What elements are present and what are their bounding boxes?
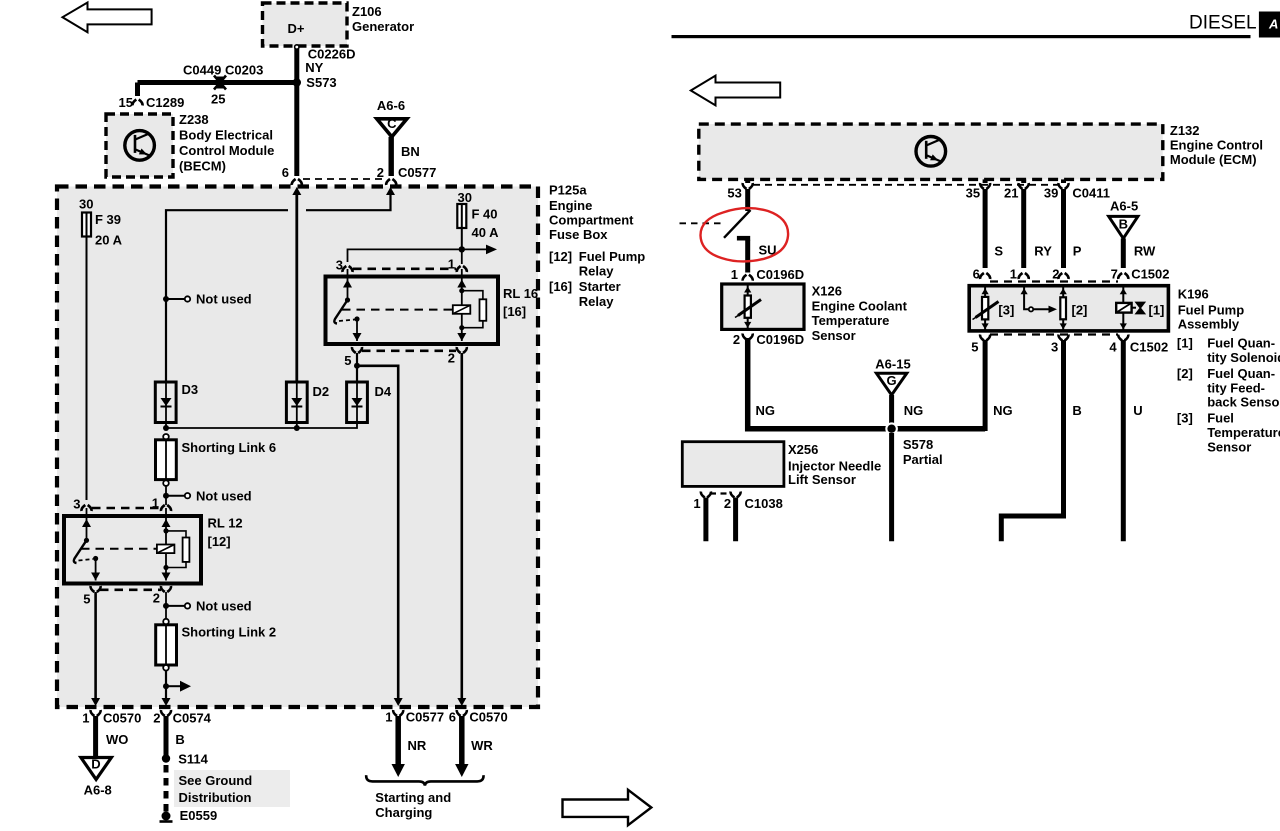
svg-text:RL 16: RL 16: [503, 286, 538, 301]
RL16 lower contact wire to pin5: [356, 319, 358, 341]
wire A6-15 down to S578: [889, 395, 894, 429]
RL12 coil: [157, 545, 175, 554]
wire S down to C1502 pin 6: [983, 189, 988, 268]
wire F39 down to RL12 pin3: [86, 237, 88, 501]
terminal not used (RL12 pin1): [163, 493, 169, 499]
wire B down to S114: [164, 716, 169, 762]
svg-text:S573: S573: [306, 75, 336, 90]
wire shorting link 2 down to C0574: [165, 670, 167, 701]
svg-text:Relay: Relay: [579, 294, 614, 309]
svg-text:G: G: [887, 373, 897, 388]
wire pin2 down and left to left column: [306, 194, 391, 210]
svg-text:D2: D2: [313, 384, 330, 399]
ECM icon: [916, 137, 946, 167]
sensor X256 box: [682, 442, 784, 487]
wire WR to starting and charging: [459, 716, 465, 765]
terminal not used (upper): [163, 296, 169, 302]
svg-text:P: P: [1073, 244, 1082, 259]
svg-text:6: 6: [282, 165, 289, 180]
svg-text:A: A: [1268, 17, 1278, 32]
svg-text:[16]: [16]: [503, 304, 526, 319]
svg-text:E0559: E0559: [180, 808, 218, 823]
svg-text:5: 5: [83, 592, 90, 607]
switch SU blade: [724, 210, 751, 238]
svg-text:NY: NY: [305, 60, 323, 75]
svg-text:2: 2: [153, 591, 160, 606]
red annotation ellipse: [700, 208, 788, 261]
wire junction left and down to RL16 pin3: [348, 249, 462, 262]
wire RL12 pin5 down to C0570: [94, 592, 97, 701]
terminal not used (RL12 pin2): [163, 603, 169, 609]
svg-text:B: B: [1072, 403, 1081, 418]
splice S573: [293, 78, 301, 86]
RL16 coil feed wire from pin1: [461, 269, 463, 305]
RL16 switch blade: [334, 300, 347, 324]
svg-text:C0196D: C0196D: [756, 332, 804, 347]
svg-text:Distribution: Distribution: [179, 790, 252, 805]
svg-text:2: 2: [724, 496, 731, 511]
svg-text:S578: S578: [903, 437, 933, 452]
dashed line left of SU: [680, 222, 721, 224]
svg-text:Fuse Box: Fuse Box: [549, 227, 608, 242]
nav arrow bottom right: [563, 790, 652, 825]
splice S114: [162, 754, 170, 762]
generator Z106 box: [263, 3, 348, 46]
svg-text:3: 3: [73, 497, 80, 512]
svg-text:C1502: C1502: [1130, 340, 1168, 355]
svg-text:C0203: C0203: [225, 63, 263, 78]
junction flag symbol: [163, 683, 169, 689]
svg-text:BN: BN: [401, 144, 420, 159]
svg-text:[3]: [3]: [1177, 411, 1193, 426]
svg-text:[2]: [2]: [1072, 303, 1088, 318]
svg-text:Charging: Charging: [375, 805, 432, 820]
see ground distribution background: [174, 770, 290, 807]
svg-text:1: 1: [1010, 267, 1017, 282]
wire NG from X126 down and right: [748, 338, 985, 429]
svg-text:Fuel: Fuel: [1207, 411, 1234, 426]
svg-text:Lift Sensor: Lift Sensor: [788, 472, 856, 487]
svg-text:NR: NR: [408, 738, 427, 753]
wire junction down to RL16 pin1: [461, 249, 463, 264]
dashed connector line C1502 top: [990, 280, 1118, 282]
svg-text:X256: X256: [788, 442, 818, 457]
wire generator down to fusebox pin 6: [294, 46, 299, 168]
svg-text:1: 1: [731, 267, 738, 282]
shorting link 2: [163, 619, 169, 625]
svg-text:P125a: P125a: [549, 183, 587, 198]
svg-text:Engine Control: Engine Control: [1170, 137, 1263, 152]
svg-text:Not used: Not used: [196, 489, 252, 504]
arrow continuing right from junction: [462, 248, 488, 250]
svg-text:Temperature: Temperature: [812, 313, 890, 328]
wire RY down to C1502 pin 1: [1021, 189, 1026, 268]
arrow into box at pin 2: [386, 187, 395, 195]
dashed connector line RL12 pins 5-2: [100, 588, 161, 591]
wire B from K196 pin3: [1001, 340, 1063, 541]
svg-text:Temperature: Temperature: [1207, 425, 1280, 440]
RL16 switch contact wire from pin3: [347, 269, 349, 300]
svg-text:Fuel Pump: Fuel Pump: [1178, 303, 1245, 318]
svg-text:C1038: C1038: [745, 496, 783, 511]
RL16 coil out wire to pin2: [461, 314, 463, 341]
svg-text:B: B: [175, 732, 184, 747]
svg-text:Sensor: Sensor: [812, 328, 856, 343]
brace starting and charging: [366, 775, 483, 785]
svg-text:C0570: C0570: [469, 710, 507, 725]
svg-text:F 40: F 40: [472, 207, 498, 222]
wire NG from K196 pin5: [983, 340, 988, 431]
svg-text:2: 2: [733, 332, 740, 347]
svg-text:C1502: C1502: [1131, 267, 1169, 282]
svg-text:[2]: [2]: [1177, 366, 1193, 381]
svg-text:39: 39: [1044, 186, 1058, 201]
relay RL16 box: [326, 277, 499, 345]
wire X256 pin2 down: [733, 498, 738, 542]
nav arrow top-left: [63, 3, 152, 33]
svg-text:25: 25: [211, 92, 225, 107]
sensor X126 box: [722, 284, 804, 329]
dashed connector line pin53 to pin39: [753, 184, 1058, 186]
svg-text:C1289: C1289: [146, 95, 184, 110]
wire RL16 pin5 down to D4: [356, 353, 358, 381]
diode D4: [347, 382, 368, 423]
svg-text:2: 2: [377, 165, 384, 180]
svg-text:Shorting Link 2: Shorting Link 2: [182, 625, 277, 640]
svg-text:3: 3: [1051, 340, 1058, 355]
BECM icon: [125, 131, 155, 161]
wire S578 down: [889, 433, 894, 541]
ground E0559: [162, 812, 171, 821]
RL12 switch contact wire from pin3: [86, 508, 88, 540]
svg-text:2: 2: [448, 351, 455, 366]
svg-text:Starting and: Starting and: [375, 790, 451, 805]
svg-text:X126: X126: [812, 284, 842, 299]
svg-text:35: 35: [966, 186, 980, 201]
RL16 switch dashed link to contact: [339, 320, 355, 322]
svg-text:[12]: [12]: [208, 534, 231, 549]
svg-text:Module (ECM): Module (ECM): [1170, 152, 1257, 167]
svg-text:DIESEL: DIESEL: [1189, 13, 1257, 34]
relay RL12 box: [64, 516, 201, 584]
BECM Z238 box: [106, 114, 173, 177]
svg-text:Partial: Partial: [903, 452, 943, 467]
svg-text:1: 1: [448, 257, 455, 272]
shorting link 6: [163, 434, 169, 440]
wire RL16 pin2 down to C0570: [460, 353, 463, 701]
svg-text:Z106: Z106: [352, 4, 382, 19]
wire F40 down to junction: [461, 228, 463, 249]
RL16 coil: [453, 305, 471, 314]
svg-text:(BECM): (BECM): [179, 159, 226, 174]
dashed connector line C1038: [710, 492, 731, 494]
svg-text:6: 6: [449, 710, 456, 725]
svg-text:B: B: [1119, 217, 1128, 232]
svg-text:Starter: Starter: [579, 279, 621, 294]
svg-text:Fuel Quan-: Fuel Quan-: [1207, 336, 1275, 351]
wire S573 left to C1289: [138, 80, 297, 85]
svg-text:Engine Coolant: Engine Coolant: [812, 298, 908, 313]
svg-text:A6-5: A6-5: [1110, 199, 1138, 214]
wire crossover continue to x166: [166, 210, 288, 382]
exit arrows at fusebox bottom: [91, 698, 100, 706]
svg-text:D: D: [91, 757, 100, 772]
svg-text:RL 12: RL 12: [208, 516, 243, 531]
diode D3: [155, 382, 176, 423]
svg-text:tity Solenoid: tity Solenoid: [1207, 350, 1280, 365]
svg-text:RW: RW: [1134, 244, 1156, 259]
dashed connector line RL16 pins 5-2: [362, 349, 456, 352]
svg-text:[1]: [1]: [1177, 336, 1193, 351]
wire A6-6 down to fusebox pin 2: [389, 137, 394, 176]
svg-text:53: 53: [727, 186, 741, 201]
nav arrow right side: [691, 76, 780, 106]
wire P down to C1502 pin 2: [1061, 189, 1066, 268]
arrow into box at pin 6: [292, 187, 301, 195]
svg-text:1: 1: [82, 711, 89, 726]
svg-text:Not used: Not used: [196, 599, 252, 614]
terminal circle at Z106: [295, 45, 299, 49]
wire U from K196 pin4: [1121, 340, 1126, 541]
switch SU lower contact: [737, 236, 750, 241]
svg-text:40 A: 40 A: [472, 225, 500, 240]
RL12 coil feed wire from pin1: [165, 508, 167, 545]
svg-text:Control Module: Control Module: [179, 143, 274, 158]
svg-text:RY: RY: [1034, 244, 1052, 259]
RL12 coil actuation dashed line: [81, 548, 156, 550]
svg-text:5: 5: [971, 340, 978, 355]
svg-text:Z238: Z238: [179, 112, 209, 127]
connector triangle A6-8: [81, 758, 112, 780]
svg-text:NG: NG: [756, 403, 776, 418]
wire pin6 down to D2: [295, 193, 298, 382]
K196 solenoid [1]: [1122, 286, 1124, 303]
svg-text:[3]: [3]: [998, 303, 1014, 318]
svg-text:NG: NG: [993, 403, 1013, 418]
fuel pump assembly K196 box: [969, 286, 1168, 331]
RL12 resistor: [166, 531, 186, 568]
svg-text:Z132: Z132: [1170, 123, 1200, 138]
dashed connector line RL16 pins 3-1: [353, 267, 456, 270]
dashed connector line pin6-pin2: [303, 178, 386, 180]
svg-text:A6-15: A6-15: [875, 357, 910, 372]
svg-text:Shorting Link 6: Shorting Link 6: [182, 440, 277, 455]
svg-text:tity Feed-: tity Feed-: [1207, 380, 1265, 395]
svg-text:C0411: C0411: [1072, 186, 1110, 201]
svg-text:21: 21: [1004, 186, 1018, 201]
svg-text:C0570: C0570: [103, 711, 141, 726]
svg-text:[12]: [12]: [549, 249, 572, 264]
wire X256 pin1 down: [703, 498, 708, 542]
RL12 lower contact wire to pin5: [95, 559, 97, 581]
ECM Z132 box: [699, 124, 1163, 179]
svg-text:Generator: Generator: [352, 19, 414, 34]
diode common link wire: [166, 423, 357, 429]
fusebox P125a dashed box: [57, 187, 538, 708]
svg-text:U: U: [1133, 403, 1142, 418]
svg-text:See Ground: See Ground: [179, 773, 253, 788]
svg-text:C: C: [387, 116, 397, 131]
svg-text:NG: NG: [904, 403, 924, 418]
svg-text:S: S: [994, 244, 1003, 259]
svg-text:WO: WO: [106, 732, 128, 747]
K196 feedback sensor [2]: [1024, 286, 1029, 310]
header tab: [1259, 12, 1280, 38]
svg-text:K196: K196: [1178, 287, 1209, 302]
wire pin 53 down: [745, 189, 750, 211]
svg-text:Fuel Pump: Fuel Pump: [579, 249, 646, 264]
svg-text:WR: WR: [471, 738, 493, 753]
diode D2: [286, 382, 307, 423]
svg-text:2: 2: [1052, 267, 1059, 282]
svg-text:1: 1: [693, 496, 700, 511]
svg-text:4: 4: [1109, 340, 1117, 355]
svg-text:5: 5: [344, 353, 351, 368]
svg-text:30: 30: [79, 197, 93, 212]
svg-text:back Sensor: back Sensor: [1207, 395, 1280, 410]
svg-text:Body Electrical: Body Electrical: [179, 128, 273, 143]
wire to RL12 pin1: [165, 485, 167, 505]
RL12 switch blade: [74, 540, 87, 563]
svg-text:[1]: [1]: [1149, 303, 1165, 318]
svg-text:C0449: C0449: [183, 63, 221, 78]
svg-text:7: 7: [1111, 267, 1118, 282]
wire WO down to A6-8: [93, 716, 98, 757]
svg-text:D3: D3: [182, 382, 199, 397]
dashed connector line C1502 bottom: [990, 333, 1118, 335]
K196 thermistor [3]: [984, 286, 986, 297]
svg-text:Compartment: Compartment: [549, 213, 634, 228]
svg-text:Assembly: Assembly: [1178, 317, 1240, 332]
svg-text:A6-6: A6-6: [377, 98, 405, 113]
RL12 switch dashed link to contact: [79, 559, 94, 561]
RL16 coil actuation dashed line: [342, 309, 452, 311]
wire down to C1289: [135, 83, 140, 97]
svg-text:S114: S114: [178, 752, 208, 767]
wire RL12 pin2 down to shorting link 2: [165, 592, 167, 620]
svg-text:C0574: C0574: [173, 711, 212, 726]
svg-text:Sensor: Sensor: [1207, 439, 1251, 454]
svg-text:[16]: [16]: [549, 279, 572, 294]
svg-text:30: 30: [458, 190, 472, 205]
svg-text:C0577: C0577: [398, 165, 436, 180]
svg-text:C0577: C0577: [406, 710, 444, 725]
junction dot F40 output: [459, 246, 465, 252]
RL12 coil out wire to pin2: [165, 553, 167, 580]
svg-text:6: 6: [973, 267, 980, 282]
dashed connector line RL12 pins 3-1: [92, 507, 160, 510]
svg-text:15: 15: [119, 95, 133, 110]
RL16 resistor: [462, 291, 483, 328]
dashed ground wire: [164, 765, 169, 812]
splice S578: [885, 422, 898, 435]
svg-text:D4: D4: [375, 384, 392, 399]
wire RL16 pin5 junction right then down to C0577: [357, 366, 398, 701]
svg-text:A6-8: A6-8: [84, 783, 112, 798]
svg-text:20 A: 20 A: [95, 233, 123, 248]
svg-text:F 39: F 39: [95, 212, 121, 227]
header rule: [672, 35, 1251, 38]
svg-text:2: 2: [153, 711, 160, 726]
svg-text:Fuel Quan-: Fuel Quan-: [1207, 366, 1275, 381]
svg-text:C0196D: C0196D: [756, 267, 804, 282]
wire NR to starting and charging: [395, 716, 401, 765]
svg-text:Not used: Not used: [196, 292, 252, 307]
svg-text:Relay: Relay: [579, 263, 614, 278]
svg-text:D+: D+: [288, 21, 305, 36]
svg-text:1: 1: [385, 710, 392, 725]
svg-text:Engine: Engine: [549, 198, 592, 213]
wire RW down to C1502 pin 7: [1121, 238, 1126, 268]
X126 thermistor: [747, 284, 749, 296]
